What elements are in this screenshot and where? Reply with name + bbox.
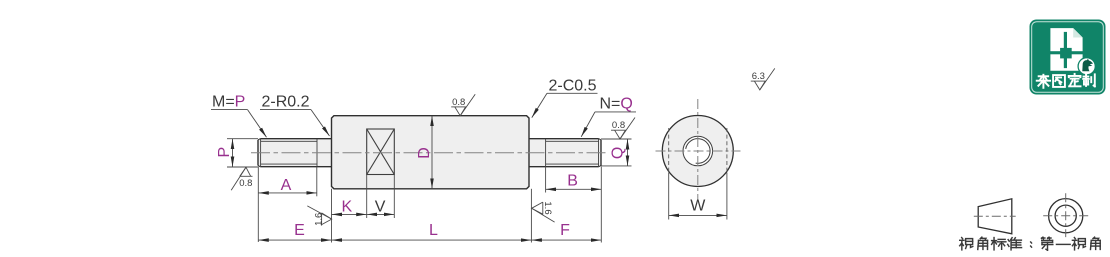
- dimension W: [668, 173, 670, 220]
- svg-text:W: W: [690, 198, 706, 215]
- general surface finish 6.3: [751, 68, 775, 90]
- crosshair on sheet: [1064, 32, 1067, 68]
- projection circles: [1049, 199, 1083, 233]
- document sheet: [1050, 28, 1082, 71]
- svg-text:0.8: 0.8: [239, 178, 252, 189]
- left threaded stud: [258, 139, 332, 167]
- dimension V: [367, 213, 395, 215]
- svg-text:1.6: 1.6: [542, 201, 553, 214]
- svg-text:D: D: [416, 147, 433, 159]
- eagle badge: [1078, 58, 1095, 75]
- icon caption 来图定制: [1037, 75, 1050, 88]
- svg-text:2-C0.5: 2-C0.5: [549, 78, 597, 95]
- surface finish 0.8 on cylinder top: [451, 94, 475, 116]
- right threaded stud: [529, 139, 601, 167]
- dimension D: [431, 116, 433, 189]
- dimension L: [530, 189, 532, 243]
- dimension Q: [601, 138, 632, 140]
- svg-text:2-R0.2: 2-R0.2: [262, 94, 310, 111]
- svg-text:K: K: [341, 198, 352, 215]
- svg-text:0.8: 0.8: [612, 120, 625, 131]
- svg-text:B: B: [567, 172, 578, 189]
- surface finish 0.8 under P: [231, 167, 252, 190]
- dimension E: [331, 189, 333, 243]
- green badge: custom drawing icon: [1030, 20, 1106, 95]
- svg-text:L: L: [429, 222, 438, 239]
- frustum symbol: [978, 199, 1012, 234]
- svg-text:F: F: [560, 222, 570, 239]
- dimension A: [257, 167, 259, 242]
- shaft centerline: [251, 152, 607, 154]
- svg-text:N=Q: N=Q: [600, 96, 633, 113]
- svg-text:0.8: 0.8: [452, 97, 465, 108]
- right thread chamfer + minor lines + runout: [546, 139, 599, 167]
- surface finish 1.6 right: [532, 202, 555, 222]
- shaft body fill: [258, 139, 332, 167]
- end view outer circle: [662, 116, 733, 187]
- svg-text:E: E: [294, 222, 305, 239]
- dimension K: [366, 175, 368, 219]
- left thread chamfer + minor lines + runout: [261, 139, 317, 167]
- svg-text:A: A: [281, 177, 292, 194]
- frustum centerline: [974, 215, 1016, 217]
- svg-text:M=P: M=P: [212, 94, 245, 111]
- surface finish 0.8 on Q extension: [611, 118, 635, 140]
- end view centerlines: [656, 150, 741, 152]
- hidden flat lines: [668, 128, 670, 172]
- svg-text:P: P: [216, 147, 233, 158]
- caption 视角标准：第一视角: [960, 238, 973, 250]
- dimension P: [227, 138, 258, 140]
- crossed box feature: [367, 129, 395, 175]
- dimension B: [545, 167, 547, 193]
- end view bore circles: [683, 136, 713, 166]
- svg-text:Q: Q: [610, 147, 627, 159]
- svg-text:V: V: [375, 198, 386, 215]
- svg-text:1.6: 1.6: [313, 213, 324, 226]
- projection circle centerlines: [1043, 215, 1089, 217]
- dimension F: [600, 167, 602, 243]
- svg-text:6.3: 6.3: [752, 71, 765, 82]
- surface finish 1.6 left: [307, 206, 331, 226]
